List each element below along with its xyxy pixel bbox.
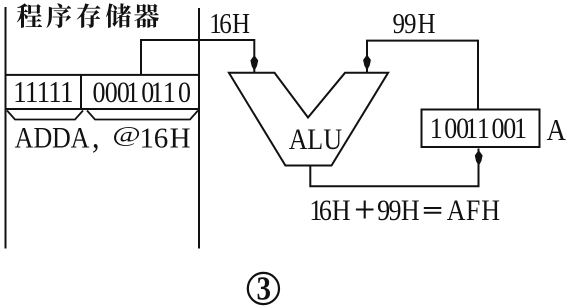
register A box: [422, 110, 540, 148]
memory cell divider: [80, 75, 82, 109]
svg-text:11111: 11111: [13, 75, 73, 109]
svg-text:ALU: ALU: [289, 123, 342, 156]
svg-text:99H: 99H: [377, 194, 420, 227]
memory cell row box: [6, 75, 200, 109]
svg-text:10011001: 10011001: [430, 112, 527, 145]
text char 器 (qi) of label "程序存储器": [134, 4, 159, 28]
wire: ALU result feedback to register A bottom: [310, 149, 478, 187]
text char 序 (xu) of label "程序存储器": [47, 3, 72, 28]
underbrace under operand cell: [87, 111, 198, 120]
svg-text:@: @: [112, 122, 140, 147]
svg-text:99H: 99H: [393, 8, 436, 40]
text char 存 (cun) of label "程序存储器": [77, 3, 101, 27]
fullwidth equals sign in equation: [424, 208, 442, 213]
svg-text:16H: 16H: [140, 123, 191, 155]
circle of circled numeral 3: [248, 273, 279, 304]
svg-text:ADDA: ADDA: [15, 121, 90, 154]
svg-text:A: A: [547, 114, 567, 148]
underbrace under opcode cell: [7, 111, 83, 120]
ALU funnel shape: [229, 73, 388, 166]
svg-text:16H: 16H: [209, 8, 250, 40]
program memory right border line: [198, 8, 200, 249]
program memory left border line: [5, 7, 7, 249]
svg-text:AFH: AFH: [447, 194, 500, 227]
svg-text:00010110: 00010110: [92, 76, 190, 109]
arrowhead into ALU left input: [250, 55, 258, 71]
text char 程 (cheng) of label "程序存储器": [17, 3, 42, 27]
fullwidth plus sign in equation: [356, 201, 374, 219]
text char 储 (chu) of label "程序存储器": [106, 3, 131, 27]
arrowhead into ALU right input: [363, 55, 371, 71]
svg-text:16H: 16H: [309, 194, 350, 227]
arrowhead into register A bottom: [475, 150, 483, 166]
wire: operand 16H from memory cell to ALU left input: [141, 40, 254, 75]
svg-text:3: 3: [257, 270, 271, 307]
wire: accumulator 99H from register A to ALU right input: [367, 41, 478, 110]
svg-text:,: ,: [92, 118, 100, 155]
